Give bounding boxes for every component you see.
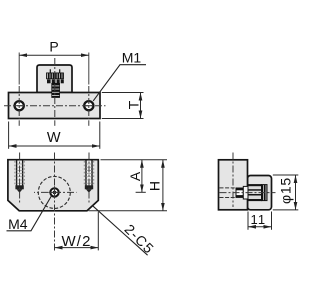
- centerline vertical right hole (top view): [88, 86, 90, 119]
- svg-text:M4: M4: [8, 216, 28, 232]
- svg-text:φ15: φ15: [277, 177, 293, 204]
- screw side view step: [243, 186, 248, 199]
- dimension P extension line left: [18, 53, 20, 85]
- dimension phi15 line: [295, 175, 297, 210]
- screw side view shank: [236, 188, 243, 197]
- screw M1 neck (top view): [50, 69, 59, 73]
- svg-text:P: P: [49, 39, 58, 55]
- dimension W extension lines: [9, 122, 100, 149]
- label M4 leader: [7, 196, 52, 231]
- dimension A H top extension line: [101, 159, 168, 161]
- dimension T extension lines: [102, 93, 144, 119]
- dimension 11 extension lines: [248, 212, 272, 230]
- dimension phi15 extension lines: [273, 175, 299, 210]
- side view boss (phi15 cylinder): [248, 176, 272, 210]
- dimension P extension line right: [88, 53, 90, 85]
- svg-text:A: A: [127, 171, 143, 181]
- dimension 11 line: [248, 226, 272, 228]
- centerline vertical left hole (top view): [18, 86, 20, 119]
- svg-text:H: H: [147, 181, 163, 191]
- svg-text:W: W: [47, 130, 61, 146]
- hidden lines M4 hole (side view): [220, 188, 237, 198]
- svg-text:11: 11: [250, 212, 266, 227]
- hole left (top view): [15, 101, 24, 110]
- screw M1 collar segments (top view): [47, 79, 64, 83]
- dimension P line: [19, 54, 89, 56]
- centerline vertical main (front view): [54, 153, 56, 251]
- centerline right hole (front view): [88, 153, 90, 205]
- dimension W/2 line: [55, 247, 99, 249]
- screw M1 knurled head (top view): [47, 73, 64, 79]
- svg-text:T: T: [126, 100, 142, 109]
- svg-text:W/2: W/2: [61, 233, 91, 250]
- hidden circle phi15 boss (front view): [38, 176, 70, 208]
- centerline vertical (side view): [232, 153, 234, 208]
- centerline tick across right hole (top view): [85, 105, 93, 107]
- centerline horizontal (top view): [3, 105, 106, 107]
- dimension W/2 right extension line: [97, 212, 99, 251]
- screw M1 threaded shank (top view): [52, 83, 60, 97]
- bar (top view body): [9, 93, 101, 119]
- dimension T line: [140, 93, 142, 119]
- front view body with chamfers 2-C5: [8, 160, 98, 211]
- centerline tick across left hole (top view): [15, 105, 24, 107]
- hole M4 (front view): [50, 188, 58, 196]
- centerline left hole (front view): [19, 153, 21, 205]
- svg-text:M1: M1: [122, 49, 142, 65]
- dimension A line: [141, 160, 143, 193]
- label 2-C5 leader: [93, 206, 148, 255]
- dimension W line: [9, 145, 100, 147]
- svg-text:2-C5: 2-C5: [121, 221, 157, 257]
- hole right M1 (top view): [84, 101, 93, 110]
- dimension H line: [162, 160, 164, 211]
- centerline ticks across M4 hole (front view): [48, 191, 60, 193]
- centerline horizontal (front view): [34, 191, 77, 193]
- screw side view knurled head: [262, 185, 268, 201]
- threaded hole right (front view, hidden): [84, 161, 93, 193]
- centerline vertical screw (top view): [54, 58, 56, 119]
- dimension A center extension tick: [136, 191, 146, 193]
- side view plate: [219, 160, 248, 210]
- dimension H bottom extension line: [89, 210, 168, 212]
- screw side view threaded section: [248, 185, 262, 201]
- centerline horizontal screw axis (side view): [220, 192, 276, 194]
- block (raised boss on bar, top view): [37, 65, 72, 93]
- label M1 leader: [93, 65, 146, 101]
- threaded hole left (front view, hidden): [15, 161, 24, 193]
